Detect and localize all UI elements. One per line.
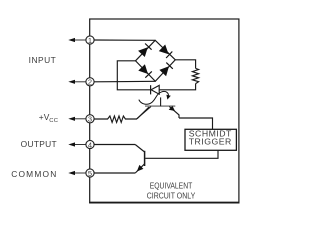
label COMMON <box>11 169 57 179</box>
wire resistor R2 to Q1 collector <box>137 107 149 119</box>
phototransistor Q1 base plate <box>145 105 175 107</box>
svg-text:EQUIVALENT: EQUIVALENT <box>150 180 193 190</box>
bridge diode D2 (top to right) <box>159 45 173 59</box>
svg-text:INPUT: INPUT <box>29 55 57 65</box>
resistor R1 (bridge load, vertical) <box>192 68 198 83</box>
label +Vcc <box>39 112 58 124</box>
svg-text:3: 3 <box>88 115 92 124</box>
wire pin2 to bridge bottom node <box>94 80 155 83</box>
svg-text:TRIGGER: TRIGGER <box>189 137 232 147</box>
pin 4 circle <box>86 140 94 149</box>
svg-text:CIRCUIT ONLY: CIRCUIT ONLY <box>147 190 196 200</box>
resistor R2 (Vcc, horizontal) <box>94 116 137 122</box>
transistor Q2 base bar <box>144 151 146 166</box>
wire resistor top to bridge right node <box>175 60 195 69</box>
pin 4 arrow <box>68 142 86 146</box>
svg-text:5: 5 <box>88 169 92 178</box>
LED D5 (emitter diode) <box>151 85 160 94</box>
outer equivalent-circuit box <box>89 19 239 203</box>
pin 1 arrow <box>68 38 86 42</box>
phototransistor Q1 collector lead <box>137 106 152 119</box>
schmitt trigger block <box>185 129 236 151</box>
pin 5 circle <box>86 169 94 178</box>
svg-text:2: 2 <box>88 78 92 87</box>
svg-text:OUTPUT: OUTPUT <box>21 139 57 149</box>
label OUTPUT <box>21 139 57 149</box>
pin 2 arrow <box>68 80 86 84</box>
svg-text:CC: CC <box>49 118 58 124</box>
pin 2 circle <box>86 78 94 87</box>
wire Q2 collector to pin 4 <box>94 144 135 146</box>
caption EQUIVALENT CIRCUIT ONLY <box>147 180 196 200</box>
transistor Q2 emitter lead with arrow <box>135 164 144 173</box>
svg-text:4: 4 <box>88 140 92 149</box>
svg-text:+V: +V <box>39 112 50 122</box>
diode bridge outline <box>136 40 176 81</box>
optical coupling arrow <box>139 91 171 104</box>
pin 3 arrow <box>68 117 86 121</box>
svg-text:COMMON: COMMON <box>11 169 57 179</box>
pin 5 arrow <box>68 171 86 175</box>
bridge diode D4 (bottom to right) <box>159 63 172 77</box>
pin 3 circle <box>86 115 94 124</box>
pin 1 circle <box>86 36 94 45</box>
bridge diode D3 (left to bottom) <box>138 64 152 78</box>
wire Q2 emitter to pin 5 <box>94 172 135 174</box>
wire bridge left node down to LED <box>117 61 150 90</box>
transistor Q2 collector lead <box>135 145 144 153</box>
phototransistor Q1 base stub <box>160 97 162 106</box>
wire schmitt trigger output to Q2 base <box>145 150 218 158</box>
phototransistor Q1 emitter lead with arrow <box>169 106 179 118</box>
wire pin1 to bridge top node <box>94 39 155 41</box>
label INPUT <box>29 55 57 65</box>
wire Q1 emitter to schmitt trigger input <box>179 118 213 130</box>
wire LED anode to right resistor <box>159 84 195 90</box>
svg-text:1: 1 <box>88 36 92 45</box>
bridge diode D1 (left to top) <box>138 44 152 58</box>
